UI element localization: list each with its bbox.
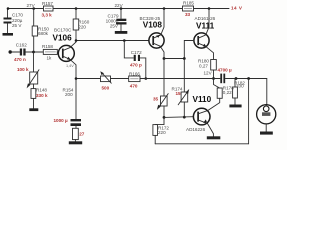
capacitor 1000u emitter: [54, 118, 82, 128]
svg-text:4700 µ: 4700 µ: [218, 68, 232, 73]
svg-text:R158: R158: [42, 44, 53, 49]
wire V110 base: [164, 116, 194, 119]
ground under speaker: [260, 132, 273, 135]
svg-text:25 V: 25 V: [12, 23, 22, 28]
wire R158 to V106 base: [57, 51, 58, 54]
wire V108 emitter: [160, 46, 164, 58]
svg-text:200: 200: [65, 92, 73, 97]
svg-text:V110: V110: [193, 95, 212, 104]
resistor R185: [183, 1, 195, 17]
input terminal: [9, 50, 12, 53]
resistor R158: [42, 44, 57, 60]
wire V110 emitter to ground: [207, 123, 213, 136]
svg-text:15: 15: [176, 91, 182, 96]
ground under R148: [29, 108, 38, 111]
wire bottom return: [155, 143, 248, 145]
svg-text:V106: V106: [53, 34, 73, 43]
node bootstrap riser: [247, 77, 250, 80]
wire output node to speaker branch: [225, 78, 266, 80]
svg-text:22V: 22V: [115, 3, 124, 8]
wire feedback line: [76, 78, 101, 80]
node input junction: [32, 51, 35, 54]
svg-text:220: 220: [78, 24, 86, 29]
wire to base node: [26, 51, 44, 53]
svg-text:V111: V111: [196, 22, 215, 31]
resistor R148: [31, 84, 48, 108]
ground under 27: [69, 141, 82, 144]
resistor R172: [153, 117, 170, 143]
wire feedback to output node: [140, 78, 220, 80]
transistor V106: [53, 28, 75, 68]
svg-text:0,27: 0,27: [199, 64, 208, 69]
resistor R154 labels: [63, 88, 74, 98]
transistor V108: [140, 16, 165, 48]
capacitor C162: [14, 43, 27, 63]
svg-text:25V: 25V: [110, 23, 119, 28]
svg-text:AD16226: AD16226: [186, 127, 206, 132]
ground under V110: [207, 136, 221, 139]
trimmer 35: [153, 59, 168, 118]
svg-text:470: 470: [130, 84, 138, 89]
wire input: [12, 51, 20, 53]
svg-text:14 V: 14 V: [231, 6, 243, 11]
trimmer 500: [100, 71, 111, 90]
trimmer 100k input: [17, 52, 39, 88]
ground under C170: [3, 33, 14, 36]
svg-text:220µ: 220µ: [12, 18, 23, 23]
svg-text:330 k: 330 k: [36, 93, 48, 98]
svg-text:27V: 27V: [27, 3, 36, 8]
ground under R182: [229, 105, 241, 108]
wire V106 emitter: [70, 59, 76, 119]
svg-text:R166: R166: [129, 72, 140, 77]
svg-text:1k: 1k: [47, 55, 53, 60]
svg-text:V108: V108: [143, 21, 163, 30]
svg-text:220: 220: [158, 130, 166, 135]
svg-text:12V: 12V: [204, 70, 213, 75]
resistor R160: [73, 7, 90, 40]
resistor R182: [233, 77, 246, 104]
svg-text:100 k: 100 k: [17, 67, 29, 72]
wire bootstrap riser: [248, 79, 250, 144]
wire V111 collector riser: [208, 7, 211, 10]
svg-text:27: 27: [79, 132, 85, 137]
svg-text:AD161-26: AD161-26: [195, 16, 216, 21]
resistor R180: [198, 46, 216, 78]
svg-text:1,4V: 1,4V: [66, 64, 74, 68]
transistor V110: [186, 95, 212, 132]
svg-text:R148: R148: [36, 88, 47, 93]
svg-text:C172: C172: [131, 50, 142, 55]
capacitor C170: [4, 9, 24, 34]
speaker: [257, 79, 276, 132]
svg-text:470 p: 470 p: [130, 63, 142, 68]
resistor R157: [42, 1, 54, 18]
wire V108 emitter to V111 base: [164, 41, 194, 59]
ground under C179: [115, 31, 128, 34]
node junction rail/C170: [7, 7, 10, 10]
transistor V111: [194, 16, 216, 48]
wire trimmer500 to R166: [111, 78, 129, 80]
svg-text:500: 500: [102, 86, 110, 91]
svg-text:3,3 k: 3,3 k: [42, 13, 53, 18]
resistor R150: [32, 7, 49, 52]
svg-text:33: 33: [185, 12, 191, 17]
capacitor C172: [123, 39, 146, 78]
svg-text:680k: 680k: [38, 31, 49, 36]
resistor 27: [73, 128, 85, 141]
capacitor C179: [106, 7, 127, 31]
svg-text:BC170C: BC170C: [54, 28, 72, 33]
wire V106 collector to V108 base: [76, 40, 149, 42]
wire supply rail 27V/22V: [8, 8, 229, 10]
wire V108 collector riser: [163, 7, 166, 10]
capacitor 4700u output: [218, 68, 232, 84]
svg-text:35: 35: [153, 96, 159, 101]
svg-text:1000 µ: 1000 µ: [54, 118, 68, 123]
resistor R166: [129, 72, 141, 89]
svg-text:100: 100: [236, 84, 244, 89]
svg-text:C170: C170: [12, 13, 23, 18]
svg-text:R157: R157: [42, 1, 53, 6]
svg-text:C162: C162: [16, 43, 27, 48]
trimmer R174: [172, 59, 190, 118]
wire V106 collector: [70, 41, 76, 48]
resistor R178: [208, 79, 235, 111]
svg-text:0,22: 0,22: [223, 90, 232, 95]
svg-text:470 n: 470 n: [14, 57, 26, 62]
svg-text:R185: R185: [183, 1, 194, 6]
